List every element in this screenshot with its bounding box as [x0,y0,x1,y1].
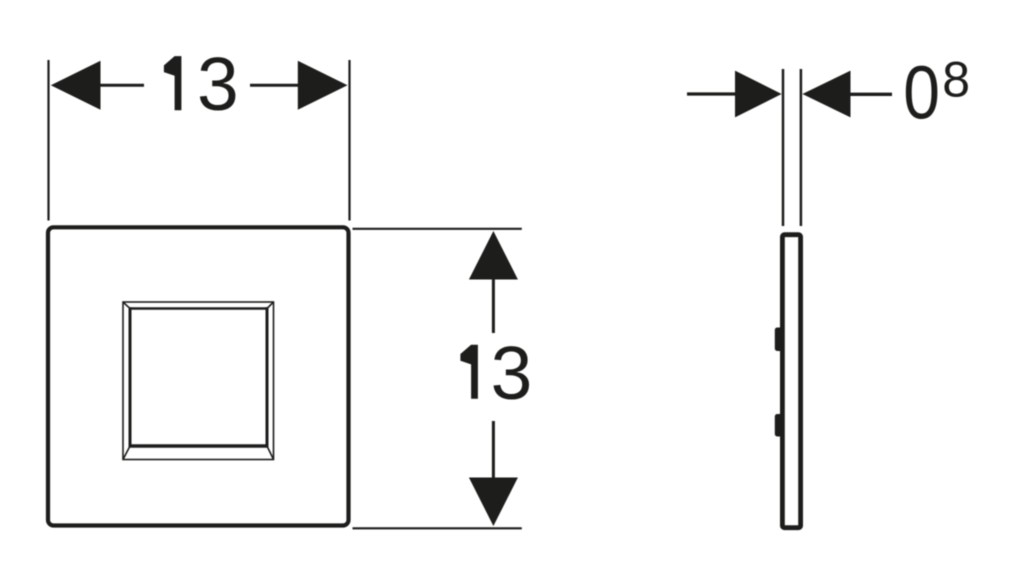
svg-text:3: 3 [491,331,533,415]
button inner edge right [266,307,269,447]
height label 13: digit 1 [460,345,478,399]
width label 13: digit 1 [164,56,182,110]
fixing clip lower [775,414,783,437]
button inner edge bottom [129,444,269,448]
svg-text:0: 0 [903,51,940,135]
height extension line top [353,228,522,230]
width extension line right [348,60,350,221]
height arrowhead up [469,231,518,280]
width dimension line right segment [250,84,299,87]
plate front outline [48,227,349,525]
button inner edge left [129,307,132,447]
thickness extension line right [800,69,803,226]
thickness arrowhead right [802,71,850,118]
thickness arrowhead left [735,71,782,118]
width arrowhead left [51,61,101,110]
height dimension line lower segment [492,421,495,478]
width arrowhead right [298,61,348,110]
button inner edge top [129,307,268,309]
button bevel diagonal top-right [267,302,274,309]
fixing clip upper [775,328,783,352]
width extension line left [47,60,49,221]
button bevel diagonal bottom-right [267,446,274,460]
button bevel diagonal bottom-left [123,446,130,460]
plate side outline [782,235,800,528]
height extension line bottom [353,527,522,529]
width dimension line left segment [99,84,144,87]
button bevel diagonal top-left [123,302,130,309]
button outer edge [123,302,274,460]
thickness leader line left [687,92,737,95]
height dimension line upper segment [492,279,495,333]
svg-text:3: 3 [197,42,239,126]
svg-text:8: 8 [942,52,970,108]
thickness extension line left [782,69,785,226]
height arrowhead down [469,478,518,527]
thickness leader line right [850,93,892,96]
